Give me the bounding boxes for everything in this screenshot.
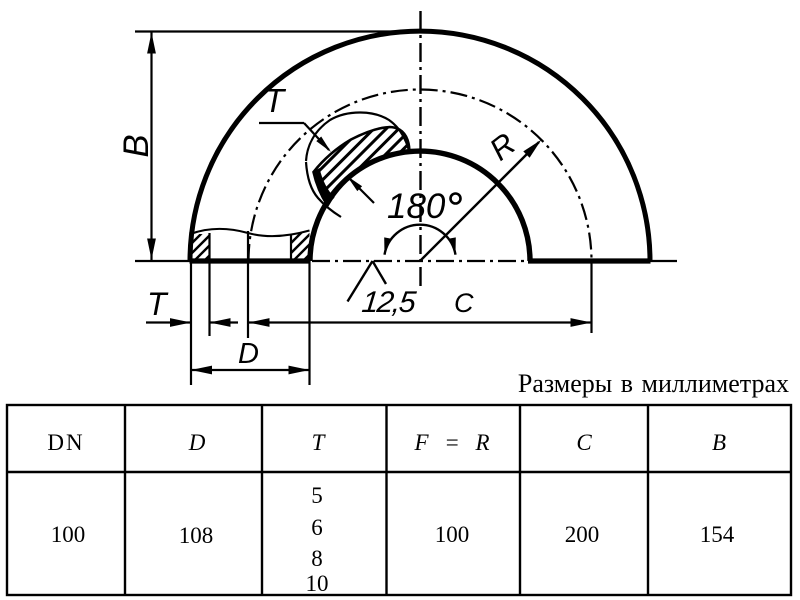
svg-text:10: 10 bbox=[306, 571, 329, 596]
inner arc bbox=[310, 151, 530, 261]
vertical centerline bbox=[419, 11, 421, 286]
dimension B bbox=[117, 32, 442, 261]
dimension D bbox=[191, 261, 310, 385]
thickness arrow (inner side) bbox=[347, 176, 374, 203]
baseline right thin bbox=[651, 260, 678, 262]
angle dimension 180 deg bbox=[384, 187, 460, 255]
svg-text:154: 154 bbox=[700, 522, 735, 547]
left port face (thick) bbox=[190, 258, 311, 263]
svg-text:R: R bbox=[483, 126, 522, 167]
solid sliver at band left end bbox=[313, 168, 335, 205]
svg-text:100: 100 bbox=[51, 522, 86, 547]
svg-text:Размеры в миллиметрах: Размеры в миллиметрах bbox=[518, 369, 789, 398]
baseline left thin bbox=[135, 260, 191, 262]
svg-text:T: T bbox=[147, 286, 169, 322]
left port centerline bbox=[247, 231, 249, 338]
svg-text:12,5: 12,5 bbox=[360, 286, 418, 319]
broken-out section boundary bbox=[306, 112, 409, 161]
dimension R (radius) bbox=[420, 126, 541, 261]
surface roughness mark 12,5 bbox=[348, 261, 418, 319]
svg-text:T: T bbox=[264, 82, 287, 119]
table header row bbox=[47, 430, 726, 455]
dimension C bbox=[249, 261, 592, 333]
dimension T (wall thickness, bottom left) bbox=[146, 286, 238, 327]
svg-text:C: C bbox=[454, 288, 474, 318]
svg-text:200: 200 bbox=[565, 522, 600, 547]
outer arc bbox=[190, 31, 650, 261]
centerline arc bbox=[249, 90, 592, 261]
thickness leader T (top) bbox=[259, 82, 331, 152]
svg-text:100: 100 bbox=[435, 522, 470, 547]
right port face (thick) bbox=[528, 258, 651, 263]
svg-text:F = R: F = R bbox=[413, 430, 489, 455]
horizontal centerline (dash-dot) bbox=[312, 260, 528, 262]
svg-text:DN: DN bbox=[47, 430, 84, 455]
svg-text:D: D bbox=[238, 338, 259, 370]
svg-text:5: 5 bbox=[311, 483, 323, 508]
svg-text:8: 8 bbox=[311, 546, 323, 571]
svg-text:D: D bbox=[188, 430, 206, 455]
svg-text:108: 108 bbox=[179, 523, 214, 548]
table data row bbox=[51, 483, 735, 596]
table frame bbox=[7, 405, 791, 595]
break line (wavy) bbox=[191, 229, 310, 236]
svg-text:180: 180 bbox=[387, 187, 446, 226]
svg-text:B: B bbox=[117, 134, 156, 157]
svg-text:C: C bbox=[576, 430, 592, 455]
svg-text:T: T bbox=[312, 430, 327, 455]
svg-text:6: 6 bbox=[311, 515, 323, 540]
svg-text:B: B bbox=[712, 430, 726, 455]
